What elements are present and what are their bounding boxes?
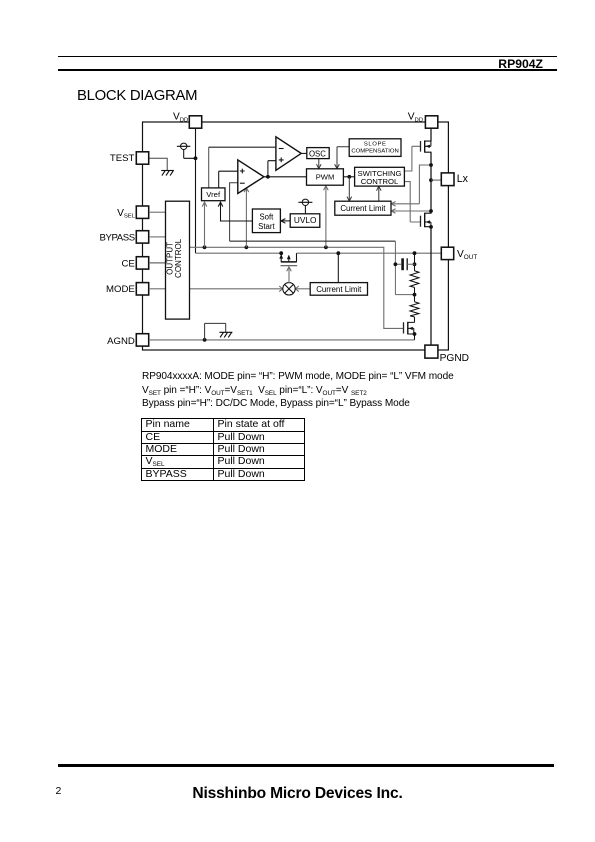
block: OUTPUT CONTROL (166, 201, 190, 319)
junction: divider tap (413, 293, 417, 297)
transistor Q1 (high-side PMOS) (421, 140, 432, 152)
pin AGND (136, 334, 148, 346)
svg-text:Start: Start (258, 222, 275, 231)
wire: TEST pin to ground (149, 158, 167, 170)
net: VOUT rail (right section) (297, 252, 442, 254)
U1 plus glyph (279, 158, 284, 163)
wire: VOUT node to current limit 2 (337, 253, 339, 282)
wire: tap to R2 (414, 295, 416, 302)
op-amp U2 (error amplifier) (238, 160, 264, 194)
labels (100, 112, 478, 365)
junction PWM output (347, 175, 351, 179)
ground symbol (internal) (219, 332, 232, 337)
header thin rule (58, 56, 557, 57)
block: OSC (307, 148, 329, 159)
block: Soft Start (252, 209, 280, 233)
svg-text:CONTROL: CONTROL (174, 238, 183, 278)
wire: OSC to PWM (arrow down) (317, 159, 322, 169)
svg-text:AGND: AGND (107, 336, 135, 347)
svg-text:VDD: VDD (408, 112, 423, 124)
capacitor C1 (feedforward) (394, 258, 415, 270)
block: PWM (307, 169, 344, 185)
wire: BYPASS pin to output control (150, 236, 166, 238)
wire: current limit 2 to multiplier (arrow left) (295, 286, 310, 292)
block: UVLO (290, 214, 320, 228)
wire: switching control to low side gate (404, 182, 420, 222)
svg-text:Current Limit: Current Limit (316, 285, 362, 294)
wire: switching control to high side gate (404, 146, 420, 171)
wire: mode line to multiplier (arrow right) (190, 286, 283, 292)
wire: enable to Vref (arrow up) (202, 202, 207, 247)
wire: error amp output to comparator non-inverting input (268, 161, 276, 177)
wire: VSEL pin to output control (150, 211, 166, 213)
net: AGND rail (150, 339, 415, 341)
company name (0, 785, 595, 803)
svg-text:CE: CE (121, 259, 134, 270)
wire: CE pin to output control (150, 262, 166, 264)
pin BYPASS (136, 231, 148, 243)
svg-text:Soft: Soft (259, 212, 274, 221)
pin TEST (136, 152, 148, 164)
transistor Q3 (bypass switch PMOS) (279, 253, 297, 266)
wire: power rail to Lx pin (431, 179, 441, 181)
wire: R1 to tap (414, 287, 416, 294)
svg-text:COMPENSATION: COMPENSATION (351, 149, 398, 155)
wire: multiplier to bypass gate (arrow up) (287, 267, 292, 283)
wire: error amp output to PWM (264, 176, 307, 178)
svg-text:BYPASS: BYPASS (100, 233, 135, 244)
pin VDD (left) (189, 116, 201, 128)
junction dots on enable rail (203, 245, 328, 249)
wire: slope compensation to PWM (arrow down) (335, 147, 350, 169)
block: Current Limit (lower) (310, 283, 367, 296)
wire: high-side drain sense to current limit (arrow left) (391, 165, 431, 206)
wire: enable to error amp (arrow up) (244, 188, 249, 248)
wire: current limit to switching control (arrow up) (377, 186, 382, 201)
svg-text:VOUT: VOUT (457, 249, 477, 261)
wire: Vref to error amp non-inverting input (219, 171, 238, 188)
wire: low-side drain sense to current limit (arrow left) (391, 209, 431, 214)
junction on AGND rail (203, 338, 207, 342)
feedback divider: top lead (414, 253, 416, 271)
svg-text:CONTROL: CONTROL (361, 177, 399, 186)
header thick rule (58, 69, 557, 71)
wire: enable to PWM (arrow up) (324, 186, 329, 248)
svg-text:OSC: OSC (309, 149, 326, 158)
net: output-control enable rail (190, 247, 404, 328)
wire: comparator output to OSC (301, 152, 307, 154)
part number RP904Z (400, 57, 543, 71)
junction: feedforward cap top (413, 262, 417, 266)
wire: R2 to discharge transistor drain (414, 317, 416, 323)
wire: UVLO to soft start (arrow left) (281, 219, 290, 224)
current source I2 (UVLO bias) (298, 199, 312, 214)
wire: soft start to Vref (arrow up) (218, 202, 252, 221)
junction dots on power rail (429, 163, 433, 229)
junction dots on VOUT rail (279, 251, 416, 255)
net: power rail VDD-Lx-PGND (430, 128, 432, 345)
current source I1 (bias) (177, 143, 196, 158)
svg-text:TEST: TEST (110, 153, 135, 164)
wire: AGND to internal ground (205, 323, 226, 340)
pin MODE (136, 283, 148, 295)
pin Lx (441, 173, 454, 186)
wire: PWM to switching control (343, 176, 355, 178)
multiplier / mode switch symbol (283, 283, 295, 295)
page number (56, 785, 62, 797)
wire: PWM node down to current limit (arrow down) (347, 177, 352, 201)
block: Current Limit (upper) (335, 201, 391, 215)
net: VDD rail to bypass switch (left section) (196, 252, 282, 254)
block: Vref (202, 188, 226, 201)
page title (77, 88, 197, 104)
pin PGND (425, 345, 438, 358)
svg-text:PWM: PWM (316, 173, 335, 182)
pin CE (136, 257, 148, 269)
wire: VDD left pin drop to internal VDD rail (195, 128, 197, 253)
footer rule (58, 764, 554, 767)
block: SLOPE COMPENSATION (349, 139, 401, 157)
svg-text:Vref: Vref (206, 190, 221, 199)
svg-text:PGND: PGND (440, 353, 469, 364)
transistor Q2 (low-side NMOS) (421, 213, 432, 227)
wire: feedback drop to divider tap (395, 241, 414, 295)
block: SWITCHING CONTROL (355, 167, 405, 186)
pin VDD (right) (425, 116, 437, 128)
U2 minus glyph (240, 182, 245, 184)
resistor R1 (410, 271, 419, 288)
svg-text:VDD: VDD (173, 112, 188, 124)
svg-text:Current Limit: Current Limit (340, 204, 386, 213)
wire: Vref to oscillator comparator inverting input (208, 147, 210, 188)
net: feedback line to error amp inverting input (230, 183, 238, 241)
junction on VDD line (194, 156, 198, 160)
svg-text:VSEL: VSEL (117, 208, 136, 220)
pin state table (141, 418, 305, 481)
U1 minus glyph (279, 148, 284, 150)
svg-text:MODE: MODE (106, 284, 135, 295)
svg-text:Lx: Lx (457, 173, 469, 185)
transistor Q4 (VOUT discharge NMOS) (404, 322, 417, 340)
notes under diagram (0, 0, 595, 1)
pin VSEL (136, 206, 148, 218)
U2 plus glyph (240, 169, 245, 174)
ground symbol (TEST) (161, 171, 174, 176)
IC outline rectangle (143, 122, 449, 350)
op-amp U1 (oscillator comparator) (276, 137, 301, 171)
svg-text:SLOPE: SLOPE (364, 141, 387, 147)
svg-text:UVLO: UVLO (294, 215, 317, 225)
pin VOUT (441, 247, 453, 259)
resistor R2 (410, 302, 419, 317)
wire: MODE pin to output control (150, 288, 166, 290)
junction at error amp output (266, 175, 270, 179)
